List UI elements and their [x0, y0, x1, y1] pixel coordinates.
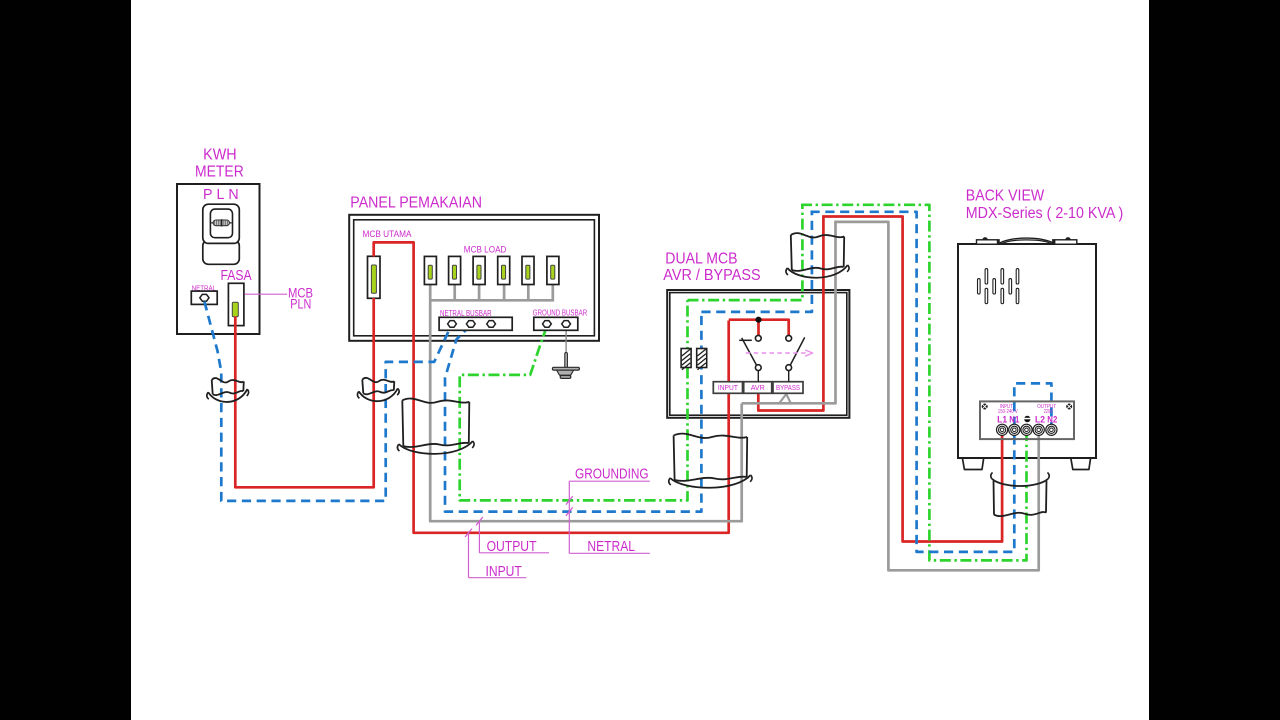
svg-text:NETRAL: NETRAL — [587, 538, 635, 555]
svg-text:MCB UTAMA: MCB UTAMA — [363, 229, 412, 239]
svg-text:FASA: FASA — [221, 268, 252, 284]
svg-text:BYPASS: BYPASS — [776, 383, 800, 392]
svg-text:PANEL PEMAKAIAN: PANEL PEMAKAIAN — [350, 195, 482, 212]
svg-text:DUAL MCB: DUAL MCB — [665, 251, 737, 268]
svg-text:GROUNDING: GROUNDING — [575, 465, 649, 482]
svg-text:INPUT: INPUT — [718, 383, 738, 392]
svg-text:AVR / BYPASS: AVR / BYPASS — [663, 267, 760, 284]
svg-text:L2: L2 — [1035, 414, 1045, 424]
svg-text:MDX-Series ( 2-10 KVA ): MDX-Series ( 2-10 KVA ) — [966, 205, 1124, 222]
svg-text:P L N: P L N — [203, 187, 239, 203]
svg-text:PLN: PLN — [290, 296, 311, 311]
svg-text:L1: L1 — [997, 414, 1007, 424]
svg-text:NETRAL BUSBAR: NETRAL BUSBAR — [440, 309, 492, 318]
svg-text:METER: METER — [195, 163, 244, 180]
svg-text:AVR: AVR — [751, 383, 766, 392]
svg-text:KWH: KWH — [203, 147, 237, 164]
svg-text:N1: N1 — [1009, 414, 1019, 424]
svg-text:MCB LOAD: MCB LOAD — [464, 245, 507, 256]
svg-text:N2: N2 — [1047, 414, 1057, 424]
svg-text:GROUND BUSBAR: GROUND BUSBAR — [533, 308, 588, 317]
svg-text:BACK VIEW: BACK VIEW — [966, 188, 1045, 205]
